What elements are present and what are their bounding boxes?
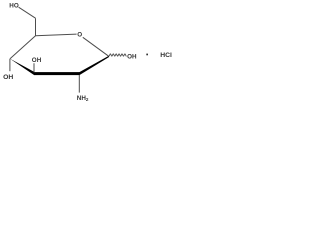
wire bond C4-OH <box>9 59 11 71</box>
wedge bond C2-C1 <box>79 56 109 75</box>
bold bond C3-C2 <box>34 72 80 75</box>
wire bond C5-C4 <box>10 36 36 59</box>
dot separator <box>146 54 148 56</box>
svg-text:OH: OH <box>127 54 137 61</box>
wire squiggle anomeric bond C1-OH <box>109 54 127 56</box>
wire bond C3-OH <box>33 63 35 72</box>
wire bond C2-NH2 <box>78 75 80 93</box>
svg-text:HO: HO <box>9 3 19 10</box>
svg-text:HCl: HCl <box>160 52 172 59</box>
svg-text:NH2: NH2 <box>77 95 89 102</box>
wire bond C6-C5 <box>35 18 37 36</box>
wire bond C5-O(ring) <box>36 34 77 36</box>
wedge bond C4-C3 <box>10 59 35 76</box>
svg-text:OH: OH <box>32 57 42 64</box>
svg-text:O: O <box>77 32 82 39</box>
svg-text:OH: OH <box>3 74 13 81</box>
wire bond O(ring)-C1 <box>83 37 109 56</box>
wire bond HO-C6 <box>19 7 36 18</box>
